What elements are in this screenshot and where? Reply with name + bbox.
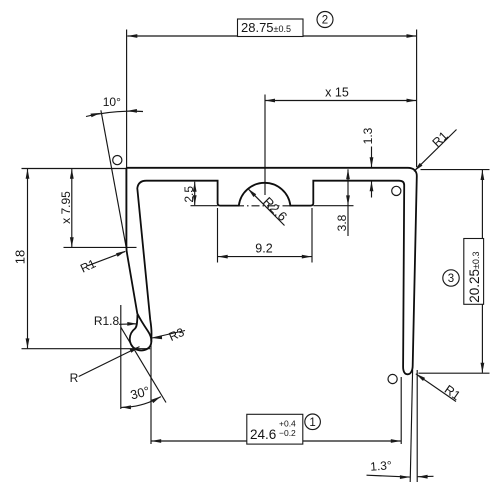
svg-text:1.3: 1.3 — [361, 127, 375, 144]
wire: extension 20.25 top — [421, 169, 490, 171]
node: balloon 2 — [317, 12, 333, 28]
arrow x7.95 bottom — [70, 237, 74, 247]
wire: extension line x7.95 bottom — [64, 246, 137, 248]
wire: dimension line x 15 — [265, 100, 417, 102]
arrow 28.75 left — [127, 34, 137, 38]
wire: leader R — [79, 347, 140, 377]
wire: right vertical reference line — [416, 370, 418, 482]
wire: dimension line 24.6 — [151, 440, 401, 442]
wire: leader R1 top right — [414, 130, 457, 172]
node: small circle bottom right — [388, 374, 397, 383]
arrow R1.8 leader — [127, 322, 137, 326]
svg-text:R: R — [70, 371, 79, 385]
wire: dimension line 20.25 — [481, 170, 483, 373]
svg-text:1.3°: 1.3° — [370, 458, 393, 473]
arrow R2.6 leader — [248, 189, 256, 198]
svg-text:+0.4: +0.4 — [279, 419, 296, 429]
wire: right extension line x=416.6 — [416, 30, 418, 168]
wire: leader R3 — [152, 331, 185, 339]
svg-text:9.2: 9.2 — [255, 242, 272, 256]
wire: 1.3 deg right tail — [418, 475, 434, 477]
node: balloon 3 — [443, 270, 459, 286]
wire: 10 deg slanted side — [101, 110, 126, 248]
svg-text:3: 3 — [448, 273, 454, 285]
svg-text:10°: 10° — [103, 95, 121, 109]
wire: bottom extension line 18 — [22, 348, 151, 350]
arrow 1.3 bottom — [370, 181, 374, 191]
svg-text:R1.8: R1.8 — [94, 314, 120, 328]
wire: leader R1.8 — [119, 323, 137, 326]
arrow R leader — [130, 347, 140, 353]
svg-text:x 7.95: x 7.95 — [59, 191, 73, 224]
wire: extension 24.6 left — [150, 336, 152, 444]
arrow 30deg left — [121, 405, 131, 409]
arrow 24.6 left — [151, 439, 161, 443]
arrow 20.25 top — [481, 170, 485, 180]
svg-text:−0.2: −0.2 — [279, 428, 296, 438]
arrow 28.75 right — [407, 34, 417, 38]
wire: floor extension right — [314, 205, 354, 207]
svg-text:3.8: 3.8 — [335, 214, 349, 231]
wire: dimension line 3.8 — [347, 169, 349, 236]
wire: dimension line 9.2 — [218, 256, 312, 258]
arrow 10deg left — [91, 113, 101, 117]
svg-text:2: 2 — [322, 15, 328, 27]
profile main outline: top edge, right wall, inner cavity — [126, 168, 416, 374]
wire: 1.3 deg left tail with arrow line — [367, 475, 410, 477]
wire: dimension line 28.75 top — [127, 35, 416, 37]
arrow 18 top — [26, 169, 30, 179]
arrow 9.2 right — [302, 255, 312, 259]
wire: extension line from R2.6 center up — [264, 95, 266, 196]
arrow x7.95 top — [70, 169, 74, 179]
wire: 30 deg vertical side — [120, 305, 122, 409]
wire: right wall extension slanted — [410, 370, 412, 482]
wire: dimension line 18 — [27, 169, 29, 349]
wire: dimension line 2.5 — [194, 182, 196, 206]
svg-text:2.5: 2.5 — [182, 186, 196, 203]
node: boxed dimension 20.25 — [464, 239, 484, 305]
wire: leader R1 mid left — [88, 252, 126, 266]
svg-text:18: 18 — [13, 250, 28, 264]
arrow x15 right — [407, 99, 417, 103]
arrow R1 mid left leader — [116, 251, 126, 257]
arrow R3 leader — [152, 335, 162, 339]
wire: left extension line from top corner up — [126, 30, 128, 251]
wire: floor extension left — [191, 205, 218, 207]
node: boxed dimension 24.6 — [247, 414, 303, 444]
arrow 1.3deg right-pointing — [400, 475, 410, 479]
node: small circle top left — [113, 156, 122, 165]
arrow 1.3 top — [370, 157, 374, 167]
wire: extension 9.2 right — [311, 208, 313, 263]
svg-text:1: 1 — [309, 417, 315, 429]
arrow x15 left — [265, 99, 275, 103]
wire: extension 24.6 right — [400, 377, 402, 444]
arrow 9.2 left — [218, 255, 228, 259]
arrow 3.8 top — [346, 169, 350, 179]
arrow 30deg right — [151, 396, 161, 403]
arrow 24.6 right — [391, 439, 401, 443]
arrow R1 top right leader — [414, 163, 423, 171]
arrow 2.5 bottom — [193, 195, 197, 205]
arrow 10deg right — [127, 109, 137, 113]
wire: 10 deg arc — [86, 111, 143, 116]
wire: extension 20.25 bottom — [419, 372, 490, 374]
wire: leader R1 bottom right — [416, 374, 456, 402]
arrow 1.3deg left-pointing — [418, 475, 428, 479]
profile left wall and foot — [126, 168, 151, 351]
wire: dimension line x 7.95 — [71, 169, 73, 247]
svg-text:x 15: x 15 — [325, 86, 349, 100]
arrow R1 bottom right leader — [416, 374, 425, 381]
wire: center dash-dot line of notch — [236, 205, 296, 207]
wire: 30 deg slanted side — [121, 327, 166, 402]
arrow 3.8 bottom — [346, 195, 350, 205]
wire: leader R2.6 — [248, 189, 285, 226]
wire: 1.3 dimension vertical lines — [371, 147, 373, 198]
arrow 20.25 bottom — [481, 363, 485, 373]
node: boxed dimension 28.75 — [238, 19, 304, 37]
arrow 18 bottom — [26, 338, 30, 348]
wire: 30 deg arc — [121, 397, 161, 408]
wire: extension 9.2 left — [217, 208, 219, 263]
svg-text:24.6: 24.6 — [250, 427, 276, 442]
arrow 2.5 top — [193, 182, 197, 192]
node: small circle top right — [392, 186, 401, 195]
node: balloon 1 — [305, 414, 321, 430]
wire: top extension line left — [22, 168, 127, 170]
